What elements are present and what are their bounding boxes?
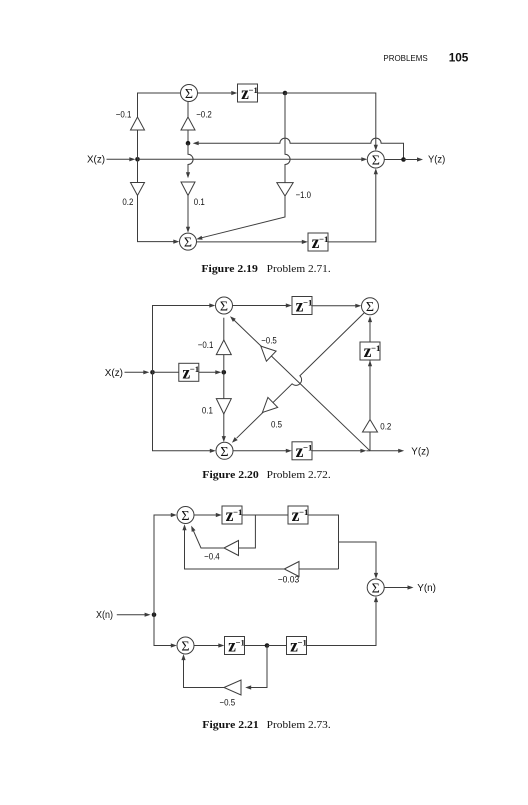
delay z^-1 Z5 (vertical branch) [360, 342, 380, 360]
svg-text:Σ: Σ [185, 87, 193, 102]
delay z^-1 Z3 [179, 363, 199, 381]
svg-text:Σ: Σ [372, 154, 380, 169]
svg-text:−1: −1 [371, 343, 380, 353]
wire X(z) input arrow [125, 371, 146, 373]
wire U4 to delay Z4 [233, 305, 289, 307]
wire -0.03 feedback line to U7 bottom [299, 568, 339, 570]
wire U9 output to Y(n) [384, 587, 409, 589]
delay z^-1 B [288, 506, 308, 524]
wire diagonal -0.5 path from output junction to U4 [234, 320, 370, 451]
wire vertical branch down from Z1 dot with hop over main line [285, 93, 290, 183]
wire rail down to summer U8 [154, 615, 173, 646]
gain 0.5 triangle on diagonal [262, 397, 277, 412]
svg-text:−0.03: −0.03 [278, 575, 300, 585]
gain -0.1 triangle [131, 117, 145, 130]
wire -0.1 output to top summer U1 [138, 93, 181, 117]
svg-text:Y(n): Y(n) [417, 583, 436, 594]
svg-text:−0.5: −0.5 [261, 335, 277, 345]
svg-text:−1: −1 [303, 443, 312, 453]
wire delay D output up into U9 bottom [307, 600, 377, 646]
svg-text:105: 105 [449, 51, 469, 65]
svg-text:0.2: 0.2 [122, 197, 133, 207]
delay z^-1 D [287, 637, 307, 655]
wire Z3 output to branch dot [199, 371, 218, 373]
svg-text:0.2: 0.2 [380, 422, 391, 432]
svg-text:Y(z): Y(z) [411, 446, 429, 457]
wire X(n) input arrow [117, 614, 147, 616]
wire diagonal 0.5 path from U5 to bottom summer with hop [237, 313, 365, 439]
svg-text:Σ: Σ [220, 445, 228, 460]
gain -0.5 triangle (Fig 2.21) [224, 680, 241, 695]
gain 0.2 triangle (Fig 2.20) [363, 420, 378, 433]
wire X(z) dot down to gain 0.2 [137, 159, 139, 182]
svg-text:−1: −1 [233, 507, 242, 517]
wire dot up to gain -0.1 [223, 355, 225, 373]
delay z^-1 Z2 [308, 233, 328, 251]
wire Z4 to top right summer [312, 305, 358, 307]
svg-text:0.1: 0.1 [202, 405, 213, 415]
svg-text:X(n): X(n) [96, 610, 113, 621]
wire U8 to delay C [194, 645, 221, 647]
wire U7 to delay A [194, 514, 218, 516]
wire Z6 to output junction with mid arrow [312, 450, 362, 452]
wire feedback node to -0.2 input [187, 130, 189, 143]
wire main feed-forward line X(z) to right summer [138, 158, 365, 160]
svg-text:−1: −1 [190, 364, 199, 374]
wire 0.2 down to output junction [369, 432, 371, 451]
wire output junction to Y(z) [370, 450, 400, 452]
wire -0.1 into top summer bottom [223, 318, 225, 340]
wire U2 to delay Z2 [197, 241, 305, 243]
node branch dot at X(z) input [135, 157, 140, 162]
wire 0.2 up into Z5 bottom [369, 360, 371, 420]
svg-text:Σ: Σ [372, 582, 380, 597]
svg-text:0.5: 0.5 [271, 420, 282, 430]
op summer U3 (output) [367, 151, 384, 168]
wire -0.5 output into U8 bottom [184, 658, 225, 688]
wire 0.2 output to U2 left input [138, 196, 176, 242]
wire delay B output right and down to -0.03 line [308, 515, 339, 569]
gain -0.03 triangle [284, 562, 299, 577]
svg-text:−1: −1 [298, 637, 307, 647]
gain -0.1 triangle (Fig 2.20) [216, 340, 231, 355]
node branch dot after Z1 [283, 91, 288, 96]
svg-text:Y(z): Y(z) [428, 155, 445, 166]
wire T2 down to -0.5 feedback line with arrow [249, 646, 267, 688]
wire left rail to bottom summer [153, 372, 213, 451]
svg-text:Problem 2.71.: Problem 2.71. [267, 263, 331, 275]
wire -1.0 output diagonal into bottom summer U2 [202, 196, 286, 238]
op summer U8 (bottom section) [177, 637, 194, 654]
op summer U2 (bottom) [180, 233, 197, 250]
delay z^-1 A [222, 506, 242, 524]
wire U6 to delay Z6 [233, 450, 288, 452]
svg-text:−0.5: −0.5 [220, 698, 236, 708]
wire delay C to branch dot T2 [245, 645, 268, 647]
svg-text:−1: −1 [249, 85, 258, 95]
svg-text:X(z): X(z) [105, 368, 123, 379]
wire Z2 output up into right summer bottom [328, 172, 376, 242]
wire dot T2 to delay D [267, 645, 287, 647]
svg-text:Σ: Σ [366, 300, 374, 315]
gain -0.4 triangle [224, 541, 239, 556]
svg-text:Figure 2.19: Figure 2.19 [201, 263, 258, 275]
node branch dot after Z3 [222, 370, 227, 375]
svg-text:Σ: Σ [220, 300, 228, 315]
svg-text:−1: −1 [236, 637, 245, 647]
delay z^-1 C [225, 637, 245, 655]
wire 0.1 output into U2 top [187, 196, 189, 230]
svg-text:−0.2: −0.2 [196, 109, 212, 119]
svg-text:0.1: 0.1 [194, 197, 205, 207]
node output dot [401, 157, 406, 162]
wire 0.1 into bottom summer top [223, 414, 225, 439]
gain 0.1 triangle [181, 182, 195, 196]
svg-text:Σ: Σ [184, 236, 192, 251]
svg-text:PROBLEMS: PROBLEMS [383, 54, 428, 63]
op summer U5 (top right) [362, 298, 379, 315]
svg-text:Figure 2.20: Figure 2.20 [202, 469, 258, 481]
wire dot to delay Z3 [153, 371, 180, 373]
wire delay A to delay B through tap T1 [242, 514, 288, 516]
svg-text:X(z): X(z) [87, 155, 105, 166]
wire dot down to gain 0.1 [223, 372, 225, 398]
wire feedback dot down to gain 0.1 with hop over main line [188, 143, 193, 173]
svg-text:Σ: Σ [181, 640, 189, 655]
gain 0.2 triangle [131, 183, 145, 196]
svg-text:Σ: Σ [181, 509, 189, 524]
delay z^-1 Z6 [292, 442, 312, 460]
svg-text:−1: −1 [319, 234, 328, 244]
op summer U4 (top left) [216, 297, 233, 314]
svg-text:−0.1: −0.1 [116, 109, 132, 119]
op summer U9 (output) [367, 579, 384, 596]
gain -1.0 triangle [277, 183, 293, 196]
op summer U6 (bottom left) [216, 442, 233, 459]
wire Z1 branch to right summer top input [285, 93, 376, 147]
svg-text:−0.4: −0.4 [204, 552, 220, 562]
op summer U1 (top left) [181, 85, 198, 102]
svg-text:−1.0: −1.0 [296, 190, 311, 200]
svg-text:Problem 2.72.: Problem 2.72. [267, 469, 331, 481]
wire U1 to delay Z1 [198, 92, 234, 94]
delay z^-1 Z1 [238, 84, 258, 102]
wire left rail to top summer [153, 306, 212, 373]
wire U3 output to branch dot [384, 159, 403, 161]
node feedback dot [186, 141, 191, 146]
node input branch dot (Fig 2.21) [152, 612, 157, 617]
node input branch dot [150, 370, 155, 375]
svg-text:−0.1: −0.1 [198, 340, 214, 350]
wire output arrow to Y(z) [404, 159, 419, 161]
delay z^-1 Z4 [292, 297, 312, 315]
svg-text:Problem 2.73.: Problem 2.73. [267, 719, 331, 731]
wire tap T1 down-left through gain -0.4 [239, 515, 256, 548]
node branch dot T2 [265, 643, 270, 648]
wire up-branch to gain -0.1 [137, 130, 139, 159]
wire rail up to summer U7 [154, 515, 173, 615]
svg-text:−1: −1 [299, 507, 308, 517]
gain -0.2 triangle [181, 117, 195, 130]
gain -0.5 triangle on diagonal [261, 346, 276, 361]
gain 0.1 triangle (Fig 2.20) [216, 399, 231, 414]
wire -0.2 output to U1 bottom input [187, 102, 189, 117]
wire Z1 output to branch dot [258, 92, 286, 94]
op summer U7 (top section) [177, 507, 194, 524]
svg-text:Figure 2.21: Figure 2.21 [202, 719, 258, 731]
svg-text:−1: −1 [303, 297, 312, 307]
wire -0.4 output into U7 lower right [194, 531, 225, 548]
wire tee T3 to output summer top [339, 542, 377, 575]
wire Z5 up into U5 bottom [369, 320, 371, 342]
wire feedback from output dot along y=143 with hops [197, 138, 404, 159]
wire X(z) input arrow [107, 158, 131, 160]
